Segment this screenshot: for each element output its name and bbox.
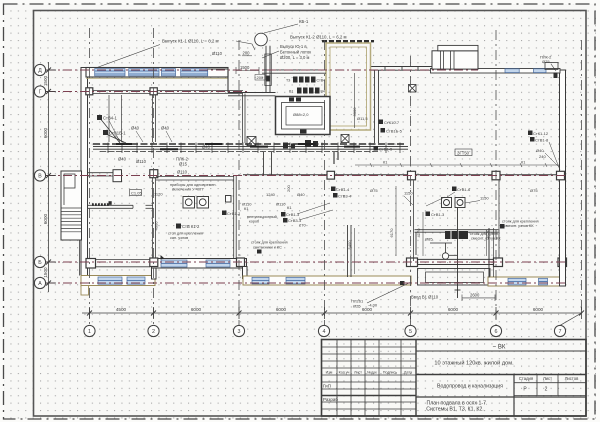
svg-text:Ø25: Ø25 bbox=[353, 304, 361, 309]
floor drain with X near shaft bbox=[341, 135, 349, 143]
svg-text:~ ВК: ~ ВК bbox=[493, 345, 506, 351]
svg-text:СтВ1Б-1: СтВ1Б-1 bbox=[109, 131, 126, 136]
axis line Д bbox=[46, 69, 478, 71]
wall pier on axis В bbox=[113, 170, 122, 182]
svg-text:200: 200 bbox=[257, 75, 264, 80]
shaft inner dim line 3000 bbox=[354, 73, 356, 128]
label ПЛК-2 Ø25 top right bbox=[540, 55, 556, 72]
bottom dimension line bbox=[82, 307, 582, 319]
wall stub middle bottom (axis 4 area) bbox=[348, 225, 352, 277]
svg-text:Кол.уч: Кол.уч bbox=[339, 371, 350, 375]
svg-text:СтВ К1-2: СтВ К1-2 bbox=[182, 224, 200, 229]
svg-text:Ø110: Ø110 bbox=[276, 202, 286, 207]
svg-text:смесит. узлов КК: смесит. узлов КК bbox=[471, 237, 501, 241]
left exterior wall on axis 1 bbox=[81, 68, 88, 287]
К1 horizontal pipe run right wing bbox=[355, 161, 559, 168]
axis line 2 bbox=[153, 28, 155, 325]
column axis 4/В bbox=[327, 171, 335, 179]
column axis 5/В bbox=[408, 171, 416, 180]
svg-text:Ø110: Ø110 bbox=[212, 51, 223, 56]
labels Ø110 К1 mid bbox=[242, 185, 305, 211]
svg-text:Ø110: Ø110 bbox=[177, 170, 188, 175]
svg-text:ТЗ: ТЗ bbox=[286, 79, 290, 83]
svg-text:Ø25: Ø25 bbox=[542, 59, 550, 64]
stadia mini-table bbox=[513, 375, 515, 417]
window W13 top right bbox=[505, 69, 519, 73]
axis line 4 bbox=[324, 40, 326, 325]
utility room fixtures (pumps) bbox=[183, 196, 231, 209]
dimension 1500 at step bbox=[236, 65, 259, 74]
svg-text:6000: 6000 bbox=[43, 213, 48, 224]
svg-text:Системы В1, Т3, К1, К2.: Системы В1, Т3, К1, К2. bbox=[426, 407, 483, 413]
svg-text:Ввод В1 Ø110: Ввод В1 Ø110 bbox=[411, 295, 439, 300]
svg-text:6: 6 bbox=[495, 329, 498, 335]
labels СтВ1-4 СтВ3-4 right of axis 4 bbox=[331, 187, 413, 206]
title block left signature table bbox=[322, 347, 417, 409]
svg-text:2: 2 bbox=[152, 329, 155, 335]
vertical axis centerlines (dark dashed) bbox=[90, 28, 582, 325]
svg-text:С1.05: С1.05 bbox=[131, 191, 142, 196]
top exterior window wall on axis Д bbox=[86, 68, 228, 78]
svg-text:4170: 4170 bbox=[416, 228, 421, 238]
svg-text:10 этажный 120кв. жилой дом.: 10 этажный 120кв. жилой дом. bbox=[434, 360, 514, 367]
labels СтВ1-3 СтВ3-3 bbox=[281, 203, 333, 228]
drop pipes below band near shaft bbox=[334, 152, 338, 164]
column axis 6/В bbox=[492, 171, 500, 180]
svg-text:Ø200, L = 3,0 м: Ø200, L = 3,0 м bbox=[280, 55, 310, 60]
svg-text:6000: 6000 bbox=[448, 307, 459, 312]
svg-text:В4: В4 bbox=[321, 90, 325, 94]
svg-text:стояк для крепления: стояк для крепления bbox=[251, 241, 288, 245]
КБ-1 well circle bbox=[255, 33, 268, 46]
pit bottom dashes bbox=[430, 282, 480, 284]
svg-text:Ø40: Ø40 bbox=[131, 126, 140, 131]
column axis 1/Б bbox=[86, 259, 96, 269]
label КБ-1 bbox=[264, 19, 309, 33]
axis line А bbox=[46, 282, 568, 284]
entrance pit inner outline bbox=[426, 272, 484, 283]
К1 stack continues to utility room bbox=[264, 152, 272, 176]
svg-text:СтВ1-4: СтВ1-4 bbox=[336, 187, 350, 192]
partition at axis 2 vertical upper bbox=[153, 95, 156, 142]
row line under building name bbox=[416, 374, 586, 376]
svg-text:1150: 1150 bbox=[404, 191, 413, 196]
svg-text:1: 1 bbox=[88, 329, 91, 335]
svg-text:6000: 6000 bbox=[533, 307, 544, 312]
interior wall on axis В (east part) bbox=[243, 174, 565, 176]
riser manifold row 1 bbox=[286, 77, 325, 83]
label СтВ3/К1-2 bbox=[168, 224, 203, 241]
svg-text:Дата: Дата bbox=[404, 371, 412, 375]
svg-text:Выпуск К1-2 Ø110, L = 6,2 м: Выпуск К1-2 Ø110, L = 6,2 м bbox=[290, 35, 347, 40]
exterior wall on axis Б (middle block) bbox=[152, 259, 247, 269]
svg-text:Выпуск К1-1 Ø110, L = 6,2 м: Выпуск К1-1 Ø110, L = 6,2 м bbox=[162, 39, 219, 44]
svg-text:стояк для крепления: стояк для крепления bbox=[502, 220, 539, 224]
pipe risers at wall left room bbox=[101, 120, 126, 144]
svg-text:короб: короб bbox=[249, 220, 260, 224]
washbasin fixtures right wing bbox=[442, 198, 466, 208]
left table column lines bbox=[337, 340, 401, 417]
tan shaft rectangle bbox=[326, 43, 371, 130]
column axis 2/В bbox=[150, 170, 158, 178]
column axis 7/Б bbox=[558, 258, 567, 267]
label СтВ1-3 near pump room bbox=[426, 197, 446, 217]
svg-text:Ø40: Ø40 bbox=[536, 148, 544, 153]
Ввод В1 pipe into entrance bbox=[455, 208, 461, 298]
corridor wall upper bbox=[262, 70, 326, 73]
interior wall on axis Г bbox=[88, 91, 244, 94]
svg-text:270: 270 bbox=[299, 223, 306, 228]
partition wall below В left bbox=[88, 205, 153, 208]
svg-text:5: 5 bbox=[409, 329, 412, 335]
left dimension texts (rotated) bbox=[43, 75, 48, 277]
radiator teeth on partition bbox=[92, 201, 112, 206]
top right exterior wall on axis Д bbox=[431, 69, 561, 74]
svg-text:смесит. узлов КК: смесит. узлов КК bbox=[504, 224, 534, 228]
svg-text:СтВ1-6: СтВ1-6 bbox=[457, 187, 471, 192]
axis line Б bbox=[46, 261, 568, 263]
svg-text:№док: №док bbox=[367, 371, 377, 375]
title block texts bbox=[323, 345, 579, 413]
svg-text:СтВ3-4: СтВ3-4 bbox=[338, 194, 352, 199]
svg-text:вентиляционный: вентиляционный bbox=[247, 215, 277, 219]
svg-text:Бетонный лоток: Бетонный лоток bbox=[280, 50, 311, 55]
window W7 Б wall bbox=[161, 260, 187, 267]
К1 pipe black dashed run above shaft bbox=[322, 40, 374, 42]
partition at axis 2 vertical lower bbox=[153, 178, 156, 259]
column at axis 3/Б bbox=[237, 258, 245, 267]
svg-text:К1: К1 bbox=[244, 206, 249, 211]
svg-text:Д: Д bbox=[38, 68, 42, 74]
bottom exterior wall on axis А (right block) bbox=[488, 277, 566, 286]
wall step at x228 bbox=[227, 71, 229, 93]
svg-text:2: 2 bbox=[545, 387, 548, 393]
column at axis 2/Б bbox=[150, 258, 158, 267]
axis line 3 bbox=[238, 40, 240, 325]
pipe chase walls left room bbox=[109, 95, 122, 142]
svg-text:Б: Б bbox=[38, 260, 42, 266]
step wall between А and Б bands bbox=[152, 263, 157, 279]
axis line 7 bbox=[581, 40, 583, 310]
staircase landing walls bbox=[64, 174, 75, 205]
svg-text:Ø75: Ø75 bbox=[530, 188, 538, 193]
dim extension lines right wing bbox=[355, 186, 487, 274]
svg-text:3000: 3000 bbox=[352, 107, 357, 117]
svg-text:стояк для крепл.: стояк для крепл. bbox=[470, 232, 499, 236]
vent chamber east wall pipes bbox=[375, 70, 379, 143]
right wing riser line 1 bbox=[413, 181, 415, 262]
svg-text:К1: К1 bbox=[383, 161, 387, 165]
interior wall on axis В (west part) bbox=[88, 173, 123, 176]
svg-text:сантехники и КС: сантехники и КС bbox=[253, 246, 282, 250]
labels стояк для крепления смесит far right bbox=[500, 220, 539, 229]
svg-text:В1: В1 bbox=[289, 90, 293, 94]
right wing west wall bbox=[488, 228, 490, 278]
pump equipment black bar bbox=[445, 231, 468, 239]
window W1 top wall bbox=[95, 69, 125, 76]
dampers inside vent chamber bbox=[289, 98, 294, 102]
pump circle bottom right bbox=[430, 243, 458, 259]
svg-text:1120: 1120 bbox=[154, 192, 163, 197]
pipe run fittings (vertical ticks) bbox=[108, 143, 400, 154]
column axis 6/Б bbox=[494, 258, 503, 267]
svg-text:6000: 6000 bbox=[276, 307, 287, 312]
svg-text:Подпись: Подпись bbox=[383, 371, 397, 375]
window W10 bbox=[286, 277, 305, 284]
svg-text:Ø40: Ø40 bbox=[297, 192, 305, 197]
svg-text:СтВ4: СтВ4 bbox=[317, 79, 326, 83]
column axis 5/Б bbox=[407, 258, 418, 267]
vent chamber room walls bbox=[276, 97, 331, 135]
svg-text:включения У-40П: включения У-40П bbox=[172, 188, 203, 192]
axis line В bbox=[46, 175, 568, 177]
wall fitting black square bbox=[400, 281, 405, 285]
roof stair bump outline bbox=[432, 51, 478, 69]
door swing mark bbox=[161, 255, 165, 260]
left annex wall below stair bbox=[79, 240, 81, 276]
svg-text:В: В bbox=[38, 174, 42, 180]
svg-text:СтВ1-3: СтВ1-3 bbox=[431, 212, 445, 217]
svg-text:Ø40: Ø40 bbox=[118, 157, 127, 162]
labels СтК1-12 СтВ1-8 top right bbox=[528, 131, 560, 171]
bottom dimension texts bbox=[116, 307, 544, 312]
left dimension tick slashes bbox=[46, 68, 51, 286]
svg-text:Выпуск Ю-1 в: Выпуск Ю-1 в bbox=[280, 44, 307, 49]
label Ø20 boxed mid bbox=[255, 75, 265, 81]
label стояк для крепления сантехники bbox=[251, 241, 288, 254]
leaders from left stack labels bbox=[109, 121, 126, 146]
window W2 top wall bbox=[129, 69, 159, 76]
label Ввод В1 bbox=[411, 293, 495, 302]
svg-text:Ø85: Ø85 bbox=[425, 237, 433, 242]
svg-text:СтК10-7: СтК10-7 bbox=[384, 120, 400, 125]
interior wall on axis Б (left block) bbox=[88, 260, 151, 267]
svg-text:Ø40: Ø40 bbox=[161, 126, 170, 131]
bottom exterior wall on axis А (middle-right block) bbox=[243, 276, 411, 285]
window W4 top wall bbox=[181, 69, 208, 76]
svg-text:240: 240 bbox=[539, 154, 546, 159]
svg-text:К1: К1 bbox=[287, 205, 292, 210]
label вентиляционный короб bbox=[247, 215, 277, 224]
parapet box ПЛК-2 bbox=[545, 63, 558, 70]
bottom exterior wall on axis А (left block) bbox=[81, 276, 155, 286]
svg-text:Стадия: Стадия bbox=[519, 376, 533, 381]
svg-text:Ø15: Ø15 bbox=[179, 162, 188, 167]
column axis 2/Г bbox=[150, 88, 157, 95]
drain with X left of vent chamber bbox=[247, 137, 256, 146]
label Выпуск К1-1 bbox=[97, 39, 255, 68]
left vertical dimension line bbox=[43, 62, 56, 292]
svg-text:Ø11,5: Ø11,5 bbox=[357, 116, 368, 121]
svg-text:Разраб: Разраб bbox=[323, 397, 338, 402]
stack labels left room bbox=[97, 115, 126, 136]
staircase flight steps bbox=[61, 208, 82, 232]
right wing riser line 2 bbox=[498, 181, 500, 259]
svg-text:СтВ1-3: СтВ1-3 bbox=[286, 212, 300, 217]
svg-text:2600: 2600 bbox=[470, 293, 480, 298]
svg-text:4500: 4500 bbox=[116, 307, 127, 312]
svg-text:СтВ1-8: СтВ1-8 bbox=[535, 138, 549, 143]
axis line 6 bbox=[495, 30, 497, 325]
axis line 1 bbox=[89, 28, 91, 325]
entrance pit outer outline bbox=[418, 269, 491, 286]
right exterior wall on axis 7 bbox=[560, 70, 566, 286]
window W5 bottom left bbox=[98, 277, 122, 284]
column axis 1/Г bbox=[86, 88, 93, 95]
label 200 underlined top bbox=[242, 51, 252, 56]
label прибор для одновременного bbox=[170, 183, 217, 192]
pipe size labels left bbox=[118, 126, 211, 165]
stair bump inner rails bbox=[441, 51, 455, 69]
labels стояк для крепления смесит right bbox=[470, 232, 501, 241]
dark fittings below shaft bbox=[283, 140, 318, 149]
label СтВ1-2 utility bbox=[222, 211, 241, 217]
label ПЛ261 Ø25 bottom bbox=[351, 282, 411, 309]
dims right wing rotated bbox=[347, 228, 490, 250]
main horizontal pipe run bbox=[93, 144, 408, 152]
svg-text:К1: К1 bbox=[521, 161, 525, 165]
svg-text:Ø40: Ø40 bbox=[202, 145, 211, 150]
label Выпуск Ю-1 бетонный лоток bbox=[262, 44, 311, 60]
divider between signature table and description area bbox=[415, 340, 417, 417]
row line under drawing name bbox=[416, 396, 586, 398]
floor drain with X east of vent chamber bbox=[409, 85, 417, 93]
porch stub bottom-left corner bbox=[81, 286, 89, 296]
svg-text:6170: 6170 bbox=[389, 228, 394, 238]
axis line Г bbox=[46, 91, 250, 93]
svg-text:3: 3 bbox=[238, 329, 241, 335]
svg-text:стол для крепления: стол для крепления bbox=[168, 232, 203, 236]
pipe run heavy segments bbox=[116, 144, 360, 149]
svg-text:7: 7 bbox=[559, 329, 562, 335]
riser manifold row 2 bbox=[289, 88, 325, 94]
svg-text:200: 200 bbox=[286, 185, 291, 192]
svg-text:1150: 1150 bbox=[480, 196, 489, 201]
svg-text:1500: 1500 bbox=[240, 65, 250, 70]
partition east of utility room bbox=[234, 176, 237, 259]
left axis circles Д Г В Б А bbox=[34, 64, 45, 288]
wall hatch corner at axis 7 bbox=[554, 73, 558, 79]
КБ-1 riser pipes bbox=[265, 46, 272, 92]
svg-text:приборы для одновремен.: приборы для одновремен. bbox=[170, 183, 217, 187]
labels СтК1-7 СтВ1-5 below vent chamber bbox=[374, 120, 403, 152]
svg-text:4: 4 bbox=[323, 329, 326, 335]
boxed ЗГТ50 bbox=[455, 149, 472, 156]
window W9 bbox=[252, 277, 269, 284]
bottom axis circles 1..7 bbox=[84, 313, 582, 337]
partition east of Г wall end bbox=[243, 94, 246, 144]
svg-text:КБ-1: КБ-1 bbox=[299, 19, 309, 24]
svg-text:1500: 1500 bbox=[43, 267, 48, 278]
roof stair bump upper part bbox=[438, 45, 478, 50]
svg-text:СтК1-12: СтК1-12 bbox=[533, 131, 549, 136]
window W11 bottom right bbox=[508, 278, 526, 285]
svg-text:ГиП: ГиП bbox=[323, 384, 331, 389]
horizontal axis centerlines (maroon dash-dot) bbox=[46, 70, 568, 283]
step wall Б to А at axis 3 bbox=[243, 267, 248, 279]
label СтВ1-6 bbox=[447, 187, 538, 204]
svg-text:5400: 5400 bbox=[347, 240, 352, 250]
svg-text:Ø110: Ø110 bbox=[136, 159, 147, 164]
svg-text:Изм: Изм bbox=[326, 371, 333, 375]
thicker separator rows bbox=[322, 395, 417, 397]
window W3 top wall bbox=[162, 69, 176, 76]
svg-text:Листов: Листов bbox=[565, 376, 579, 381]
svg-text:ЗГТ50: ЗГТ50 bbox=[457, 151, 470, 156]
label Выпуск К1-2 bbox=[290, 35, 347, 40]
column axis 7/В bbox=[557, 171, 565, 180]
svg-text:СтВ1-5: СтВ1-5 bbox=[379, 147, 393, 152]
window W14 top right bbox=[534, 69, 547, 73]
svg-text:Водопровод и канализация: Водопровод и канализация bbox=[437, 384, 503, 390]
corridor wall lower bbox=[228, 93, 276, 96]
boxed label С1.05 bbox=[130, 190, 143, 196]
svg-text:200: 200 bbox=[243, 51, 251, 56]
window W12 bottom right bbox=[539, 278, 548, 285]
row line under "~ВК" bbox=[416, 350, 586, 352]
svg-text:1240: 1240 bbox=[266, 192, 276, 197]
pump room top wall bbox=[415, 230, 499, 255]
title block outer box bbox=[322, 340, 587, 417]
svg-text:6000: 6000 bbox=[43, 127, 48, 138]
Б wall across entrance bay bbox=[418, 259, 494, 264]
svg-text:Ø88<2,0: Ø88<2,0 bbox=[293, 112, 309, 117]
svg-text:СтВ1Б-5: СтВ1Б-5 bbox=[386, 129, 403, 134]
utility room top wall bbox=[156, 177, 234, 180]
labels ПЛК-2 Ø15 bbox=[176, 157, 189, 175]
svg-text:6000: 6000 bbox=[191, 307, 202, 312]
svg-text:Лист: Лист bbox=[354, 371, 362, 375]
svg-text:А: А bbox=[38, 281, 42, 287]
bottom dimension tick slashes bbox=[87, 311, 584, 316]
svg-text:6000: 6000 bbox=[362, 307, 373, 312]
svg-text:СтВ4-1: СтВ4-1 bbox=[103, 116, 117, 121]
svg-text:сан. узлов: сан. узлов bbox=[170, 236, 188, 240]
staircase outer wall bbox=[61, 171, 82, 240]
top wall segment between shaft and bump bbox=[371, 67, 433, 71]
svg-text:1500: 1500 bbox=[43, 75, 48, 86]
svg-text:Ø75: Ø75 bbox=[370, 188, 378, 193]
window W8 Б wall bbox=[206, 260, 230, 267]
svg-text:Лист: Лист bbox=[543, 376, 552, 381]
axis line 5 bbox=[410, 56, 412, 325]
svg-text:4000: 4000 bbox=[154, 221, 159, 231]
svg-text:Г: Г bbox=[39, 90, 42, 96]
window W6 bottom left bbox=[127, 277, 145, 284]
